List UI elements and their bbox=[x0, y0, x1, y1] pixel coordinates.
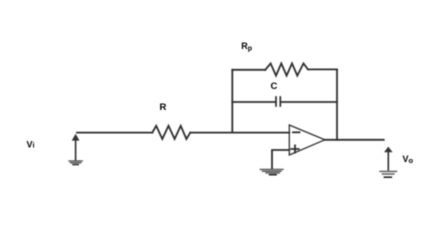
wire capacitor branch right bbox=[281, 101, 337, 103]
wire output bbox=[325, 139, 384, 141]
ground (input) bbox=[69, 161, 82, 165]
wire input left segment bbox=[77, 132, 152, 134]
wire non-inverting input bbox=[272, 150, 289, 168]
svg-text:C: C bbox=[271, 81, 278, 92]
wire feedback right vertical bbox=[336, 69, 338, 139]
ground (op-amp) bbox=[260, 169, 283, 174]
capacitor C bbox=[276, 97, 280, 106]
svg-text:Rp: Rp bbox=[241, 41, 252, 53]
op-amp U1 bbox=[289, 125, 325, 155]
svg-text:Vo: Vo bbox=[403, 154, 414, 165]
wire feedback top right segment bbox=[308, 68, 337, 70]
wire feedback left vertical bbox=[231, 70, 233, 133]
resistor Rp bbox=[265, 63, 308, 75]
svg-text:R: R bbox=[160, 102, 167, 113]
wire capacitor branch left bbox=[232, 101, 275, 103]
wire feedback top left segment bbox=[232, 69, 265, 71]
wire R to summing node to op-amp bbox=[190, 132, 289, 134]
resistor R bbox=[152, 126, 190, 139]
voltage source arrow (input) bbox=[72, 134, 80, 160]
ground (output) bbox=[380, 171, 397, 177]
svg-text:Vi: Vi bbox=[27, 140, 35, 150]
voltage source arrow (output) bbox=[384, 147, 393, 170]
